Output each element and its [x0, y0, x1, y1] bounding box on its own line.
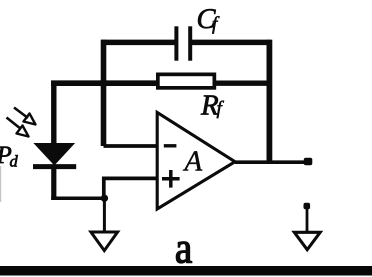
- wire: capacitor right plate to right branch corner: [190, 40, 272, 46]
- wire: horizontal rail from photodiode to resistor: [51, 80, 157, 86]
- resistor Rf body: [158, 74, 215, 88]
- wire: non-inverting input riser: [104, 178, 157, 198]
- scan artifact bottom bar: [0, 266, 372, 276]
- light arrow 1: [14, 108, 36, 125]
- output terminal dot: [304, 158, 313, 166]
- wire: right vertical branch: [266, 40, 272, 162]
- label Rf : R: [201, 96, 218, 115]
- op-amp gain label A: [183, 151, 202, 170]
- sub-figure label a: [176, 242, 191, 263]
- op-amp minus symbol: [164, 144, 177, 147]
- label Cf : C: [198, 9, 216, 28]
- label Rf : f subscript: [217, 101, 224, 118]
- label Pd : d subscript: [10, 155, 18, 167]
- ground symbol left: [91, 232, 118, 251]
- node junction dot: [101, 195, 108, 202]
- wire: bottom horizontal to junction: [51, 196, 104, 200]
- photodiode Pd triangle: [35, 144, 75, 165]
- light arrow 2: [7, 118, 29, 137]
- wire: top capacitor branch left segment: [101, 40, 177, 46]
- op-amp plus symbol: [162, 170, 180, 188]
- label Pd : P: [0, 147, 11, 163]
- wire: inverting input from node to op-amp: [104, 144, 158, 148]
- wire: ground stem right: [306, 206, 309, 233]
- wire: resistor right terminal: [215, 80, 270, 85]
- wire: photodiode cathode down: [51, 166, 56, 200]
- junction at feedback cross: [99, 79, 107, 87]
- op-amp U1 triangle: [157, 113, 235, 210]
- capacitor Cf plates: [176, 26, 190, 60]
- wire: feedback vertical to inverting node: [101, 40, 107, 146]
- ground symbol right: [294, 232, 320, 249]
- wire: photodiode anode column: [51, 81, 56, 146]
- wire: ground stem left: [103, 198, 106, 232]
- scan artifact left edge: [0, 166, 1, 202]
- photodiode cathode bar: [33, 164, 76, 169]
- label Cf : f subscript: [212, 16, 219, 33]
- wire: output: [235, 160, 309, 164]
- right ground terminal dot: [304, 203, 311, 209]
